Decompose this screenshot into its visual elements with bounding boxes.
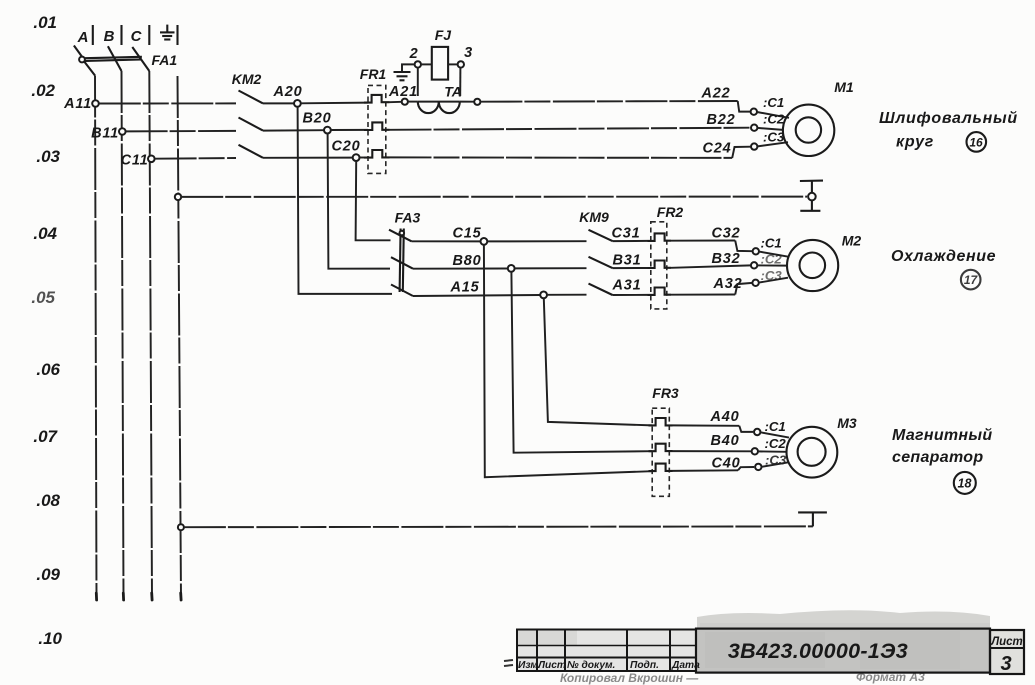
motor M3	[787, 415, 857, 478]
node on PE bus for frame-ground branch	[175, 194, 181, 200]
svg-text:C40: C40	[712, 456, 741, 472]
wire drop from B80 to row B40 feed	[511, 272, 652, 453]
svg-text:Шлифовальный: Шлифовальный	[879, 110, 1018, 127]
svg-text::C1: :C1	[763, 95, 784, 110]
svg-text::C2: :C2	[761, 252, 783, 267]
sheet row labels .01-.10	[31, 13, 62, 648]
svg-text:FA1: FA1	[152, 52, 178, 68]
svg-text:C15: C15	[453, 226, 482, 242]
node A20	[273, 84, 303, 107]
phase input C	[131, 25, 150, 45]
svg-text:A20: A20	[273, 84, 303, 100]
wire row B to M1, label B22	[390, 112, 751, 130]
wire bus A vertical	[95, 76, 97, 599]
wire FR2-C to M2, label C32	[671, 226, 752, 252]
svg-text:A22: A22	[701, 86, 731, 102]
node C11	[121, 153, 155, 169]
wire KM2-A to node A20	[263, 102, 294, 104]
wire FA3-A to node A15	[413, 295, 540, 296]
svg-text::C1: :C1	[761, 236, 782, 251]
wire FA3-B to node B80	[413, 268, 508, 270]
svg-text:A40: A40	[710, 409, 740, 425]
svg-text:.06: .06	[36, 360, 60, 379]
wire drop from C20 to row C15 feed	[356, 161, 391, 240]
wire ends of bus verticals	[96, 593, 181, 600]
motor M2	[787, 233, 861, 292]
svg-text::C2: :C2	[763, 112, 785, 127]
contactor KM2	[232, 71, 263, 158]
svg-text:C32: C32	[712, 226, 741, 242]
annotation magnetic separator	[892, 427, 992, 466]
svg-text:KM9: KM9	[579, 209, 609, 225]
svg-text:M2: M2	[842, 233, 862, 249]
wire FR2-A to M2, label A32	[671, 276, 752, 295]
svg-text:Охлаждение: Охлаждение	[891, 248, 996, 265]
thermal relay FR3	[649, 385, 679, 496]
svg-text:B22: B22	[707, 112, 736, 128]
terminal :C3 of M2	[752, 268, 788, 286]
wire drop from A15 to row A40 feed	[544, 298, 652, 425]
thermal relay FR2	[648, 204, 684, 309]
svg-text:FR1: FR1	[360, 66, 387, 82]
svg-text::C2: :C2	[765, 436, 787, 451]
svg-text:сепаратор: сепаратор	[892, 449, 983, 466]
terminal :C1 of M1	[751, 95, 789, 118]
svg-text:.10: .10	[38, 629, 62, 648]
frame/chassis terminal (lower)	[798, 512, 827, 526]
svg-text:Лист: Лист	[537, 660, 566, 671]
svg-text:.01: .01	[33, 13, 57, 32]
svg-text:C20: C20	[332, 139, 361, 155]
svg-text:16: 16	[969, 136, 983, 150]
wire KM9-C to FR2, label C31	[612, 226, 648, 242]
svg-text:.09: .09	[36, 565, 60, 584]
wire C15 to KM9	[487, 240, 586, 242]
svg-text:C31: C31	[612, 226, 641, 242]
title block table	[517, 630, 696, 672]
svg-text:B11: B11	[91, 126, 119, 142]
svg-text:.03: .03	[36, 147, 60, 166]
frame/chassis terminal (upper)	[800, 181, 823, 211]
svg-text:круг: круг	[896, 134, 934, 151]
current transformer TA	[408, 84, 480, 114]
node A15	[450, 280, 547, 299]
title block sheet number cell	[990, 630, 1024, 675]
svg-text:A21: A21	[388, 84, 418, 100]
svg-text:Магнитный: Магнитный	[892, 427, 992, 444]
svg-text:.05: .05	[31, 288, 55, 307]
earth-fault relay FJ	[409, 27, 473, 96]
svg-text:M3: M3	[837, 415, 857, 431]
wire row C to KM2	[155, 157, 236, 160]
svg-text:A15: A15	[450, 280, 480, 296]
node C20	[332, 139, 361, 162]
wire FR2-B to M2, label B32	[671, 251, 751, 268]
terminal :C3 of M3	[755, 453, 788, 471]
svg-text:FA3: FA3	[395, 210, 421, 226]
svg-text:B: B	[104, 28, 115, 45]
motor M1	[783, 79, 854, 156]
svg-text:17: 17	[964, 273, 979, 287]
title block document number cell	[696, 629, 990, 673]
annotation grinding wheel	[879, 110, 1018, 151]
svg-text:.07: .07	[33, 427, 58, 446]
svg-text:FR2: FR2	[657, 204, 684, 220]
wire FR3-B to M3, label B40	[673, 433, 752, 451]
terminal :C1 of M2	[753, 236, 789, 257]
wire drop from C15 to row C40 feed	[484, 245, 652, 477]
svg-text:Формат А3: Формат А3	[856, 670, 925, 684]
ground symbol at input PE	[160, 25, 178, 45]
contactor KM9	[579, 209, 612, 295]
svg-text:M1: M1	[834, 79, 854, 95]
wire bus C vertical	[149, 71, 152, 598]
terminal :C3 of M1	[751, 130, 788, 150]
svg-text:18: 18	[958, 477, 972, 491]
svg-text:№ докум.: № докум.	[567, 660, 615, 671]
phase input A	[77, 25, 93, 46]
node on PE bus for lower frame-ground branch	[178, 524, 184, 530]
title block smudge shading	[517, 610, 1024, 674]
svg-text:Лист: Лист	[990, 636, 1023, 648]
wire bus B vertical	[122, 71, 124, 598]
svg-text:B20: B20	[303, 111, 332, 127]
svg-text:Подп.: Подп.	[630, 660, 659, 671]
svg-text:B40: B40	[711, 433, 740, 449]
wire lower PE branch	[184, 525, 813, 528]
svg-text:3: 3	[1000, 653, 1011, 675]
wire drop from A20 to row A15 feed	[298, 107, 392, 294]
svg-text:B80: B80	[453, 253, 482, 269]
wire A20 to FR1	[301, 102, 368, 105]
thermal relay FR1	[360, 66, 390, 173]
faint pencil annotations below title block	[560, 670, 925, 685]
wire PE branch to frame terminal	[181, 196, 807, 198]
wire FA3-C to node C15	[412, 240, 481, 242]
svg-text:C: C	[131, 28, 143, 45]
svg-text:2: 2	[409, 46, 419, 62]
circled item number 17	[961, 270, 981, 290]
wire KM2-C to node C20	[263, 157, 353, 159]
svg-text:A11: A11	[63, 96, 92, 112]
svg-text:KM2: KM2	[232, 71, 262, 87]
svg-text:.04: .04	[33, 224, 57, 243]
svg-text:FJ: FJ	[435, 27, 453, 43]
node B80	[453, 253, 515, 272]
wire row A to M1, label A22	[480, 86, 750, 112]
circled item number 18	[954, 472, 976, 494]
svg-text::C1: :C1	[765, 419, 786, 434]
wire A15 to KM9	[547, 294, 587, 296]
terminal :C2 of M1	[751, 112, 785, 131]
svg-text:3B423.00000-1Э3: 3B423.00000-1Э3	[728, 639, 908, 663]
svg-text:A31: A31	[612, 278, 642, 294]
node C15	[453, 226, 488, 245]
svg-text:3: 3	[464, 45, 473, 61]
wire C20 to FR1	[360, 157, 369, 159]
title block header labels	[518, 660, 700, 671]
breaker FA1	[74, 46, 177, 76]
svg-text:.08: .08	[36, 491, 60, 510]
node B20	[303, 111, 332, 134]
svg-text:FR3: FR3	[652, 385, 679, 401]
svg-text:B32: B32	[712, 251, 741, 267]
svg-text:C11: C11	[121, 153, 149, 169]
wire KM9-B to FR2, label B31	[613, 253, 648, 269]
wire KM9-A to FR2, label A31	[612, 278, 648, 296]
edge mark left of title block	[504, 660, 513, 666]
wire row C to M1, label C24	[390, 141, 751, 158]
wire B80 to KM9	[515, 267, 587, 269]
breaker FA3	[389, 210, 421, 297]
wire row A to KM2	[99, 102, 236, 104]
svg-text:A: A	[77, 29, 89, 46]
wire drop from B20 to row B80 feed	[328, 134, 390, 269]
svg-text:B31: B31	[613, 253, 642, 269]
terminal :C2 of M3	[752, 436, 787, 454]
wire KM2-B to node B20	[263, 129, 324, 131]
svg-text:C24: C24	[703, 141, 732, 157]
svg-text:.02: .02	[31, 81, 55, 100]
wire bus PE vertical	[178, 76, 182, 598]
terminal :C1 of M3	[754, 419, 789, 438]
node A21	[388, 84, 418, 105]
svg-text:TA: TA	[444, 84, 462, 100]
wire B20 to FR1	[331, 129, 368, 131]
svg-text:Копировал Вкрошин —: Копировал Вкрошин —	[560, 671, 699, 685]
ground symbol at FJ pin 2	[394, 64, 415, 80]
phase input B	[104, 25, 122, 45]
wire row B to KM2	[126, 130, 236, 133]
wire FR3-C to M3, label C40	[673, 456, 755, 472]
wire FR3-A to M3, label A40	[673, 409, 754, 432]
node A11	[63, 96, 99, 112]
node B11	[91, 126, 126, 142]
circled item number 16	[967, 132, 987, 152]
terminal :C2 of M2	[751, 252, 787, 269]
